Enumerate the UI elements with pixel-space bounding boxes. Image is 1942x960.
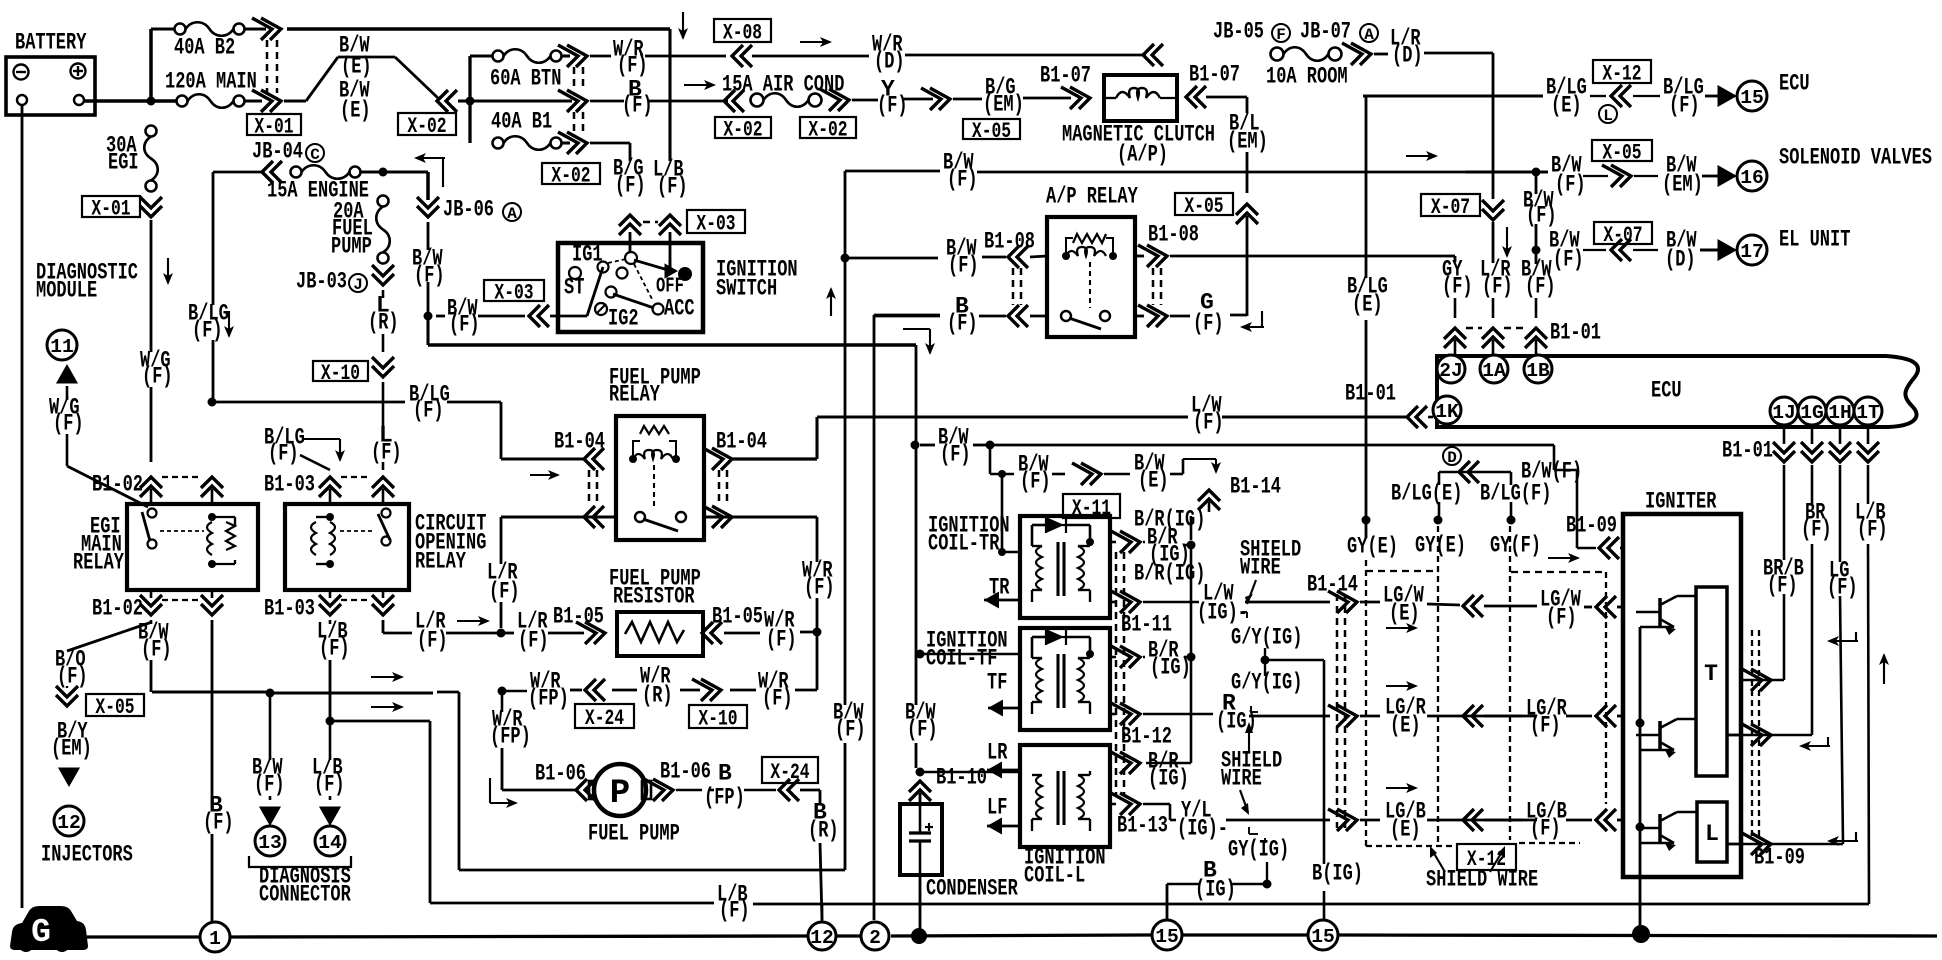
svg-text:X-02: X-02 [551,164,590,189]
svg-text:(F): (F) [449,312,480,338]
svg-text:B/LG(E): B/LG(E) [1391,481,1462,507]
wire B (R) [808,790,839,920]
svg-text:COIL-TF: COIL-TF [926,646,997,672]
svg-text:B1-02: B1-02 [92,472,143,498]
label JB-06 [443,197,521,223]
svg-text:EL UNIT: EL UNIT [1779,227,1851,253]
label diagnostic module [36,260,138,304]
terminal 12 ground [808,905,836,950]
svg-text:T: T [1704,661,1718,687]
arrow up right [1879,653,1889,684]
svg-text:(F): (F) [1530,713,1561,739]
label B/O [55,647,88,690]
svg-text:(E): (E) [1138,468,1169,494]
wire FP switch left [501,506,616,528]
svg-text:(F): (F) [1546,605,1577,631]
node B/LG E [1362,516,1371,525]
TR spark output [984,575,1020,609]
arrow down X-07 [1502,227,1512,258]
connector X-05 chevron [921,88,1020,144]
svg-text:X-08: X-08 [723,21,762,46]
label fuel pump resistor [609,566,701,610]
wire B1-08 coil row [844,222,1447,279]
igniter L block [1697,802,1727,862]
connector B1-01 bottom [1722,425,1879,464]
svg-text:COIL-L: COIL-L [1024,863,1085,889]
svg-text:B1-02: B1-02 [92,596,143,622]
svg-text:G: G [31,914,51,951]
connector B1-01 top [1444,320,1601,356]
pin 2J [1437,355,1465,383]
arrow L/R [457,616,490,626]
svg-text:(F): (F) [766,627,797,653]
wire B/W ignition main [428,316,916,345]
label X-08 box [714,19,771,46]
svg-text:(D): (D) [874,49,905,75]
shield hook R [1242,612,1258,712]
node B/W 445 [911,441,920,450]
svg-text:(F): (F) [192,318,223,344]
wire B/W solenoid row [1466,170,1548,173]
svg-text:(E): (E) [340,98,371,124]
svg-text:B1-05: B1-05 [553,604,604,630]
svg-text:2J: 2J [1439,360,1463,382]
connector B1-01 1K [1345,381,1433,428]
svg-text:(F): (F) [1801,517,1832,543]
connector D [1439,447,1511,485]
pin 1A [1480,355,1508,383]
svg-text:(F): (F) [1530,816,1561,842]
node B/W 990 [986,441,995,450]
wire B/W x916 lower [905,448,938,768]
arrow LG/R [1386,681,1418,691]
label B/L (EM) [1227,111,1268,155]
connector B1-09 out3 [1742,833,1805,871]
svg-text:(E): (E) [341,54,372,80]
svg-text:D: D [1447,449,1457,467]
svg-text:B/LG(F): B/LG(F) [1480,481,1551,507]
label LG/R E [1385,695,1537,739]
pin 1G [1798,397,1826,425]
connector JB-03 chevron [372,265,394,285]
ignition coil TF T2 [926,628,1110,730]
wire main B [470,99,572,102]
svg-text:(F): (F) [719,898,750,924]
wire condenser ground [919,875,922,930]
label LG/B E [1385,799,1537,843]
label GY row [1347,533,1541,560]
node B IG [1263,880,1272,889]
svg-text:L: L [1705,821,1719,847]
label X-05 box r2 [1592,140,1652,166]
svg-text:COIL-TR: COIL-TR [928,531,1000,557]
wire L/R row [501,604,605,654]
connector X-01 chevron [252,90,281,112]
TR primary feed [998,470,1020,556]
svg-text:(F): (F) [877,93,908,119]
label B/W (E) lower [339,78,371,124]
arrow y707 [371,702,404,712]
svg-text:B1-07: B1-07 [1189,62,1240,88]
wire B/W y171 [845,150,1533,193]
wire W/R (D) [752,32,1146,75]
connector X-24 chevron [779,779,820,801]
ignition switch SW1 [558,243,798,332]
injector diagonal [67,622,152,651]
arrow ig1 [1827,632,1858,646]
wire ground bus 3 [891,935,1152,936]
terminal 17 EL unit [1700,227,1851,265]
svg-text:(F): (F) [1553,247,1584,273]
svg-text:B1-04: B1-04 [554,429,605,455]
wire L/R to resistor [487,517,520,628]
svg-text:(F): (F) [804,575,835,601]
svg-text:X-24: X-24 [585,706,624,731]
connector B1-14 LG/W [1307,572,1380,613]
wire ground bus 2b [836,934,863,937]
wire branch vertical [468,56,471,143]
ignition switch contacts [564,242,695,332]
svg-text:P: P [610,775,630,813]
svg-text:(F): (F) [617,53,648,79]
label shield wire 2 [1221,722,1282,792]
label GY IG [1228,837,1289,880]
svg-text:(F): (F) [413,398,444,424]
svg-text:BATTERY: BATTERY [15,30,87,56]
arrow y677 [371,672,404,682]
LR spark output [987,740,1020,779]
connector B1-06 left [535,761,596,801]
svg-text:X-07: X-07 [1431,195,1470,220]
svg-text:B/R(IG): B/R(IG) [1134,561,1205,587]
label B/G (EM) [953,75,1071,118]
wire L/W (F) [817,393,1408,436]
label X-24 box 2 [762,757,818,785]
arrow up mid [826,287,836,316]
svg-text:(E): (E) [1390,817,1421,843]
wire 1J column [1742,465,1804,680]
wire B column [203,620,234,922]
svg-text:ECU: ECU [1651,378,1682,404]
connector B1-03 top [264,472,394,504]
label X-11 box [1063,494,1120,521]
COR relay internals [311,509,391,569]
arrow ig3 [1827,832,1858,846]
svg-text:B1-01: B1-01 [1722,438,1773,464]
svg-text:(EM): (EM) [983,92,1024,118]
svg-text:(E): (E) [1389,601,1420,627]
svg-text:(IG): (IG) [1148,766,1189,792]
battery [6,30,95,115]
wire B/LG (E) horizontal [1363,94,1543,97]
svg-text:RELAY: RELAY [73,550,124,576]
connector B1-14 LG/B [1328,809,1380,831]
node B/W AP [841,254,850,263]
wire W/R (F) [590,37,726,79]
svg-text:1K: 1K [1435,401,1459,423]
connector LG/R F [1463,696,1623,739]
svg-text:B/R(IG): B/R(IG) [1134,507,1205,533]
arrow right solenoid [1406,151,1438,161]
label G/Y 2 [1231,670,1302,696]
terminal 13 [255,826,285,856]
terminal 15 ground a [1152,920,1182,950]
svg-text:(IG)-: (IG)- [1197,600,1248,626]
label B/W(F) igniter [1521,459,1582,546]
connector B1-06 right [644,759,776,811]
svg-text:A/P RELAY: A/P RELAY [1046,184,1138,210]
svg-text:(F): (F) [940,442,971,468]
wire igniter out L [1727,843,1742,846]
svg-text:X-02: X-02 [723,118,762,143]
wire B1-04 right [733,417,817,459]
svg-text:17: 17 [1740,241,1764,263]
svg-text:A: A [507,205,517,223]
connector X-10 chevron [372,357,394,377]
label B/W (EM) [1662,153,1703,198]
connector B1-08 dashes [1013,268,1161,305]
svg-text:B1-08: B1-08 [1148,222,1199,248]
label shield wire 3 [1240,790,1249,815]
svg-text:L: L [1603,107,1613,125]
svg-text:(A/P): (A/P) [1117,142,1168,168]
svg-text:(F): (F) [489,579,520,605]
svg-text:B1-13: B1-13 [1117,813,1168,839]
svg-text:ECU: ECU [1779,71,1810,97]
svg-text:(F): (F) [615,173,646,199]
wire GY corner [1447,256,1455,262]
node B/W solenoid [1532,168,1541,177]
wire diag L/B [312,721,345,826]
label L/R (D) [1374,26,1493,69]
svg-text:JB-07: JB-07 [1300,19,1351,45]
fuel pump resistor R1 [617,612,703,656]
connector X-12 chevron [1590,85,1660,125]
svg-text:TF: TF [987,670,1007,696]
svg-text:X-03: X-03 [696,212,735,237]
transistor Q2 [1636,719,1696,758]
svg-text:(F): (F) [1442,274,1473,300]
svg-text:(F): (F) [947,167,978,193]
diagnosis bracket [249,856,351,908]
label B/LG E F [1391,481,1551,507]
terminal 15 ground b [1308,920,1338,950]
label shield wire 4 [1426,846,1538,893]
wire B/W E branch [990,445,1221,495]
wire D stub left [1434,502,1443,525]
connector dashes coils [1116,552,1124,795]
svg-text:(F): (F) [1555,172,1586,198]
label X-02 box 2 [542,163,600,189]
svg-text:2: 2 [869,927,881,949]
connector X-05 chevron r2 [1583,165,1658,187]
svg-text:1G: 1G [1800,402,1824,424]
shield dashes x1510 [1509,526,1511,840]
connector B1-14 LG/R [1328,705,1380,727]
label B/W (F) r2 [1551,153,1586,198]
svg-text:RELAY: RELAY [609,382,660,408]
wire W/R row [528,664,793,712]
svg-text:SOLENOID VALVES: SOLENOID VALVES [1779,145,1932,171]
svg-text:G/Y(IG): G/Y(IG) [1231,670,1302,696]
pin 1J [1770,397,1798,425]
label GY (F) [1442,257,1473,300]
wire ground bus [60,935,200,938]
svg-text:15: 15 [1155,926,1179,948]
label L/R (F) col [1480,257,1513,300]
svg-text:12: 12 [57,812,81,834]
label X-24 box [575,704,634,731]
svg-text:(IG): (IG) [1195,877,1236,903]
svg-text:(F): (F) [1482,274,1513,300]
condenser C1 [900,804,942,875]
label condenser [926,876,1018,902]
A/P relay switch [1061,311,1110,329]
svg-text:(F): (F) [1020,469,1051,495]
svg-text:X-07: X-07 [1603,223,1642,248]
svg-text:B1-12: B1-12 [1121,724,1172,750]
arrow LG/W box [1386,623,1418,633]
label X-07 box left [1421,194,1480,220]
svg-text:(F): (F) [1827,575,1858,601]
svg-text:G/Y(IG): G/Y(IG) [1231,625,1302,651]
svg-text:B1-06: B1-06 [660,759,711,785]
wire B IG left [1167,858,1263,920]
connector X-08 chevron [732,45,752,67]
svg-text:J: J [353,276,363,294]
connector B1-02 bottom [92,590,223,622]
svg-text:(R): (R) [808,818,839,844]
node B/R TF [1187,653,1196,662]
label L/B (F) [653,157,688,200]
wire B x873 [874,315,940,920]
A/P relay coil [1062,234,1117,308]
node G/Y [1261,656,1325,865]
connector LG/B F [1463,799,1623,842]
svg-text:(F): (F) [53,411,84,437]
shield dashes x1606 [1605,572,1607,804]
svg-text:(FP): (FP) [528,686,569,712]
svg-text:10A ROOM: 10A ROOM [1266,64,1348,90]
wire L (F) column [371,382,402,470]
node ground condenser [911,928,927,944]
node 15A junction [379,168,388,177]
wire igniter out T [1727,734,1742,737]
svg-text:JB-04: JB-04 [252,139,303,165]
svg-text:B1-06: B1-06 [535,761,586,787]
svg-text:13: 13 [258,832,282,854]
arrow down left [163,258,173,285]
terminal 11 circle [47,330,77,360]
wire emitter bus [1636,627,1645,933]
svg-text:LR: LR [987,740,1008,766]
svg-text:MODULE: MODULE [36,278,97,304]
pin 1T [1854,397,1882,425]
wire B/W y692 [152,689,433,698]
label B/LG E col [1347,274,1388,318]
wire B/G corner [590,143,630,161]
svg-text:(FP): (FP) [490,724,531,750]
connector X-05 B/L [1175,193,1258,224]
svg-text:X-01: X-01 [91,197,130,222]
arrow fuel pump [490,778,518,808]
svg-text:40A B2: 40A B2 [174,35,235,61]
svg-text:B: B [718,761,732,787]
svg-text:(F): (F) [268,441,299,467]
wire B/W to right [990,445,1577,470]
connector B1-02 top [92,472,223,504]
svg-text:(F): (F) [314,772,345,798]
label L/B below COR [317,619,350,721]
svg-text:B1-01: B1-01 [1345,381,1396,407]
svg-text:(EM): (EM) [1662,172,1703,198]
node W/R FP [498,687,528,696]
node W/R junction [813,628,822,637]
svg-text:15: 15 [1311,926,1335,948]
fuse 30A EGI [106,126,158,192]
label L/B (F) bottom [717,882,1869,924]
svg-text:B1-14: B1-14 [1230,474,1281,500]
svg-text:(F): (F) [1857,517,1888,543]
label B/LG mid [264,425,345,470]
svg-text:WIRE: WIRE [1221,766,1262,792]
label X-03 box [687,210,745,237]
label shield wire 1 [1240,537,1301,604]
fuse 15A AIR COND [722,72,849,112]
svg-text:OFF: OFF [656,276,684,299]
label X-01 box left [82,196,140,222]
COR relay K3 [285,504,487,590]
label B/LG (E) [1546,75,1587,119]
label B/Y (EM) [51,719,92,762]
svg-text:(F): (F) [947,311,978,337]
svg-text:(F): (F) [57,664,88,690]
svg-text:JB-06: JB-06 [443,197,494,223]
arrow hook top [414,153,445,187]
shield dashes x1366 [1365,560,1367,846]
LF spark output [987,795,1020,835]
label B/R IG top [1134,507,1205,540]
A/P relay K2 [1047,217,1135,337]
svg-text:X-10: X-10 [321,361,360,386]
arrow G continuation [1240,311,1264,332]
FP relay internals [629,426,686,531]
node branch 60A/40A [466,97,475,106]
L primary feed [916,768,1021,777]
fuse 15A ENGINE [213,139,428,204]
label X-07 box r3 [1594,222,1652,248]
label B/LG top [188,301,229,344]
svg-text:(F): (F) [1526,203,1557,229]
label X-12 box [1593,60,1651,87]
wire L/R from COR [383,609,498,654]
svg-text:40A B1: 40A B1 [491,109,552,135]
ignition coil L T3 [1020,745,1110,889]
svg-text:(E): (E) [1551,93,1582,119]
svg-text:EGI: EGI [108,150,139,176]
svg-text:(F): (F) [518,628,549,654]
svg-text:(IG): (IG) [1150,655,1191,681]
wire L secondary [1110,793,1330,842]
svg-text:RESISTOR: RESISTOR [613,584,695,610]
terminal 2 ground [861,922,889,950]
label X-02 boxes air cond [715,117,856,143]
pin 1H [1826,397,1854,425]
svg-text:CONNECTOR: CONNECTOR [259,882,351,908]
magnetic clutch MC [1104,75,1177,121]
arrow ig2 [1799,737,1830,751]
connector B1-09 dashes [1752,630,1759,840]
